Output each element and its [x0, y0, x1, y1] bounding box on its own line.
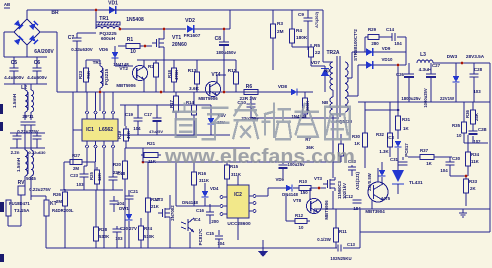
svg-text:R13: R13	[188, 68, 197, 73]
svg-text:T3.15A: T3.15A	[14, 208, 30, 213]
svg-text:C14: C14	[386, 27, 395, 32]
svg-text:C26: C26	[396, 72, 405, 77]
svg-text:R11: R11	[339, 229, 347, 234]
svg-text:VD8: VD8	[278, 84, 288, 89]
svg-text:1.5mH: 1.5mH	[16, 157, 21, 172]
svg-text:MBT3904: MBT3904	[365, 209, 385, 214]
svg-text:103: 103	[76, 182, 84, 187]
svg-text:1K: 1K	[403, 126, 409, 131]
svg-text:150: 150	[300, 190, 308, 195]
svg-text:C20: C20	[120, 226, 129, 231]
svg-text:IC1: IC1	[86, 127, 94, 133]
svg-text:TR1: TR1	[99, 16, 109, 22]
svg-text:470K: 470K	[174, 69, 179, 80]
svg-text:200K: 200K	[305, 100, 310, 111]
svg-text:510K: 510K	[144, 234, 155, 239]
svg-text:www.elecfans.com: www.elecfans.com	[164, 145, 355, 168]
svg-text:VD6: VD6	[99, 47, 109, 52]
svg-text:TL431: TL431	[409, 180, 423, 185]
svg-text:1.3K: 1.3K	[379, 149, 389, 154]
svg-text:R6: R6	[246, 84, 253, 90]
svg-text:DW1: DW1	[119, 206, 129, 211]
svg-text:VT1: VT1	[172, 35, 181, 41]
svg-text:VD4: VD4	[210, 186, 219, 191]
svg-text:MBT5906: MBT5906	[324, 200, 329, 220]
svg-text:104: 104	[217, 241, 225, 246]
svg-text:280: 280	[371, 41, 379, 46]
svg-text:MBT5906: MBT5906	[116, 83, 136, 88]
svg-text:0.1/2W: 0.1/2W	[317, 237, 332, 242]
svg-text:R20: R20	[113, 162, 122, 167]
svg-text:4.4u500v: 4.4u500v	[4, 75, 24, 80]
svg-text:VD10: VD10	[382, 57, 394, 62]
svg-text:C16: C16	[196, 208, 205, 213]
svg-text:10: 10	[130, 49, 136, 55]
svg-text:VD7: VD7	[311, 60, 321, 65]
svg-text:R34: R34	[471, 152, 480, 157]
svg-text:C23: C23	[70, 173, 78, 178]
svg-text:28V3.5A: 28V3.5A	[466, 54, 485, 59]
svg-text:R10: R10	[299, 179, 308, 184]
svg-text:311K: 311K	[231, 172, 242, 177]
svg-text:IC4: IC4	[194, 217, 201, 222]
svg-text:R27: R27	[72, 153, 81, 158]
svg-text:20N60: 20N60	[172, 42, 187, 48]
svg-text:180K: 180K	[296, 35, 308, 40]
svg-text:10: 10	[457, 133, 462, 138]
svg-text:C27: C27	[432, 63, 441, 68]
svg-text:23V0.5W: 23V0.5W	[367, 172, 372, 191]
svg-text:PC817C: PC817C	[198, 228, 203, 245]
svg-text:C13: C13	[347, 242, 355, 247]
svg-text:C17: C17	[144, 112, 153, 117]
svg-text:C5: C5	[11, 60, 18, 66]
svg-text:R35: R35	[452, 123, 461, 128]
svg-text:C19: C19	[125, 112, 134, 117]
svg-text:PQ3215: PQ3215	[104, 68, 109, 85]
svg-text:75K: 75K	[86, 70, 91, 79]
svg-text:C18: C18	[117, 171, 126, 176]
svg-text:104: 104	[394, 41, 402, 46]
svg-text:311K: 311K	[199, 178, 210, 183]
svg-text:Np: Np	[324, 68, 330, 73]
svg-text:6A/200V: 6A/200V	[34, 49, 54, 55]
svg-text:R37: R37	[420, 148, 429, 153]
svg-text:AB: AB	[4, 2, 10, 7]
svg-text:1N5408: 1N5408	[126, 17, 144, 23]
svg-text:1800u25v: 1800u25v	[401, 96, 421, 101]
svg-text:R30: R30	[352, 134, 361, 139]
svg-text:180u450v: 180u450v	[216, 50, 236, 55]
svg-text:R2: R2	[148, 64, 154, 69]
svg-text:FU18D471: FU18D471	[9, 201, 30, 206]
svg-text:12K: 12K	[97, 172, 102, 181]
svg-text:22V1W: 22V1W	[440, 96, 455, 101]
svg-text:R23: R23	[78, 70, 83, 79]
svg-text:R3: R3	[277, 21, 283, 26]
svg-text:C15: C15	[206, 231, 215, 236]
svg-text:0.22u630: 0.22u630	[29, 150, 47, 155]
svg-text:C7: C7	[68, 35, 75, 41]
svg-text:4.4u500v: 4.4u500v	[27, 75, 47, 80]
svg-text:1000u25V: 1000u25V	[423, 88, 428, 108]
svg-text:103: 103	[115, 236, 123, 241]
svg-text:MBT5906: MBT5906	[198, 96, 218, 101]
svg-text:RV: RV	[18, 180, 26, 186]
svg-text:2K: 2K	[470, 186, 476, 191]
svg-text:47u25V: 47u25V	[149, 129, 163, 134]
svg-text:1.5mH: 1.5mH	[12, 93, 17, 108]
svg-text:DW3: DW3	[447, 54, 458, 59]
svg-text:C30: C30	[452, 156, 461, 161]
svg-text:C31: C31	[390, 157, 399, 162]
svg-text:TR2A: TR2A	[326, 50, 339, 56]
svg-text:3.6K: 3.6K	[189, 86, 200, 91]
svg-text:2M: 2M	[73, 166, 79, 171]
svg-text:R16: R16	[198, 171, 207, 176]
svg-text:C2B: C2B	[478, 127, 487, 132]
svg-text:2N7002: 2N7002	[170, 205, 175, 221]
svg-text:1K: 1K	[354, 141, 360, 146]
svg-text:11K: 11K	[471, 159, 480, 164]
svg-text:R18: R18	[167, 69, 172, 77]
svg-text:R5: R5	[314, 43, 320, 48]
svg-text:R4DR200L: R4DR200L	[52, 208, 74, 213]
svg-text:104: 104	[440, 168, 448, 173]
svg-text:R31: R31	[402, 117, 411, 122]
svg-text:22: 22	[315, 50, 321, 55]
svg-text:R12: R12	[295, 213, 304, 218]
svg-text:VT3: VT3	[314, 176, 323, 181]
svg-text:24K: 24K	[474, 112, 479, 121]
svg-text:103: 103	[473, 89, 481, 94]
svg-text:VD9: VD9	[382, 46, 391, 51]
svg-text:C9: C9	[298, 12, 304, 17]
svg-text:C21: C21	[130, 189, 139, 194]
svg-text:R14: R14	[186, 100, 194, 105]
svg-text:L3: L3	[420, 52, 426, 58]
svg-text:28*11: 28*11	[22, 114, 34, 119]
svg-text:R12: R12	[228, 68, 237, 73]
svg-text:IC3: IC3	[387, 135, 394, 140]
svg-text:VT3: VT3	[155, 197, 164, 202]
svg-text:A71(20J): A71(20J)	[315, 11, 319, 28]
svg-text:104: 104	[133, 126, 141, 131]
svg-text:VD2: VD2	[185, 18, 195, 24]
svg-text:R36: R36	[465, 109, 470, 117]
svg-text:21K: 21K	[151, 204, 160, 209]
svg-text:C28: C28	[474, 67, 483, 72]
svg-text:R33: R33	[469, 179, 478, 184]
svg-text:VT5: VT5	[382, 196, 391, 201]
svg-text:0.33u630V: 0.33u630V	[71, 47, 93, 52]
svg-text:L6562: L6562	[99, 127, 113, 133]
svg-text:UCC28600: UCC28600	[227, 221, 251, 226]
svg-text:VD1: VD1	[108, 0, 118, 6]
svg-text:102/1kV: 102/1kV	[342, 183, 347, 199]
svg-text:FR1607: FR1607	[184, 33, 201, 38]
svg-text:R28: R28	[99, 227, 108, 232]
svg-text:530K: 530K	[99, 234, 110, 239]
svg-text:R1: R1	[127, 37, 134, 43]
svg-text:BR: BR	[51, 10, 59, 16]
svg-text:200: 200	[211, 219, 219, 224]
svg-text:1K: 1K	[426, 161, 432, 166]
svg-text:PC817: PC817	[404, 143, 409, 157]
svg-text:STR6B100CT*2: STR6B100CT*2	[353, 29, 358, 61]
svg-text:A31(2J1): A31(2J1)	[355, 171, 360, 189]
svg-text:R24: R24	[144, 226, 153, 231]
svg-text:R21: R21	[147, 141, 156, 146]
svg-text:VT8: VT8	[293, 198, 302, 203]
svg-text:NB: NB	[322, 100, 328, 105]
svg-text:102N25KU: 102N25KU	[330, 256, 351, 261]
svg-text:R4: R4	[296, 28, 302, 33]
svg-text:104: 104	[117, 201, 125, 206]
svg-text:IC2: IC2	[234, 192, 242, 198]
svg-text:VT2: VT2	[119, 66, 128, 71]
svg-text:DN4148: DN4148	[182, 200, 198, 205]
svg-text:DN4148: DN4148	[282, 192, 298, 197]
svg-text:2.2n: 2.2n	[11, 150, 20, 155]
svg-text:R29: R29	[368, 27, 377, 32]
svg-text:C8: C8	[215, 36, 222, 42]
svg-text:4.3uH: 4.3uH	[419, 67, 432, 72]
svg-text:27V: 27V	[129, 226, 137, 231]
svg-text:C6: C6	[34, 60, 41, 66]
svg-text:600uH: 600uH	[101, 36, 116, 41]
svg-text:10: 10	[299, 225, 304, 230]
svg-text:2M: 2M	[56, 199, 62, 204]
svg-text:0.22u275V: 0.22u275V	[29, 187, 51, 192]
svg-text:R17: R17	[169, 99, 174, 107]
svg-text:2M: 2M	[277, 29, 284, 34]
svg-text:R25: R25	[89, 171, 94, 179]
svg-text:R32: R32	[376, 132, 385, 137]
svg-text:R26: R26	[53, 192, 62, 197]
